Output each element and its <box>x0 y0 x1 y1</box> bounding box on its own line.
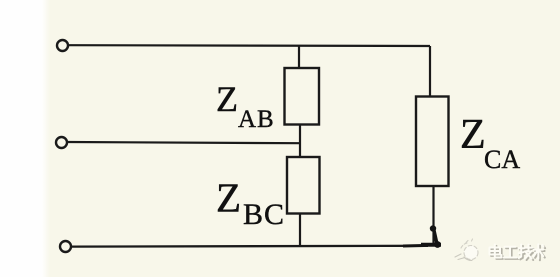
watermark logo icon <box>455 239 478 261</box>
left white scan margin <box>0 0 44 277</box>
resistor Z_CA box <box>416 97 449 187</box>
junction blob at bottom wire <box>434 241 441 248</box>
terminal B <box>56 137 67 148</box>
wire Z_BC to bottom <box>299 214 301 247</box>
hand-drawn stroke to bottom wire <box>434 228 438 244</box>
junction blob on Z_CA wire <box>430 225 436 231</box>
svg-text:AB: AB <box>238 106 275 133</box>
wire middle B to junction <box>68 142 301 143</box>
wire right vertical corner to Z_CA <box>429 46 431 97</box>
svg-text:Z: Z <box>460 112 486 158</box>
svg-text:Z: Z <box>216 79 238 119</box>
wire bottom thick hand-drawn end <box>421 243 441 247</box>
wire bottom <box>72 245 429 248</box>
terminal A <box>57 40 68 51</box>
wire between Z_AB and Z_BC <box>299 125 301 158</box>
terminal C <box>60 241 71 252</box>
resistor Z_AB box <box>285 68 320 125</box>
wire top A to right corner <box>69 44 431 47</box>
svg-text:Z: Z <box>216 175 241 221</box>
wire vertical drop to Z_AB <box>298 46 300 68</box>
resistor Z_BC box <box>287 157 320 214</box>
watermark text dian-gong-ji-shu drawn as strokes <box>490 244 546 260</box>
wire Z_CA down <box>432 186 434 243</box>
svg-text:BC: BC <box>243 198 285 231</box>
svg-text:CA: CA <box>484 145 520 174</box>
